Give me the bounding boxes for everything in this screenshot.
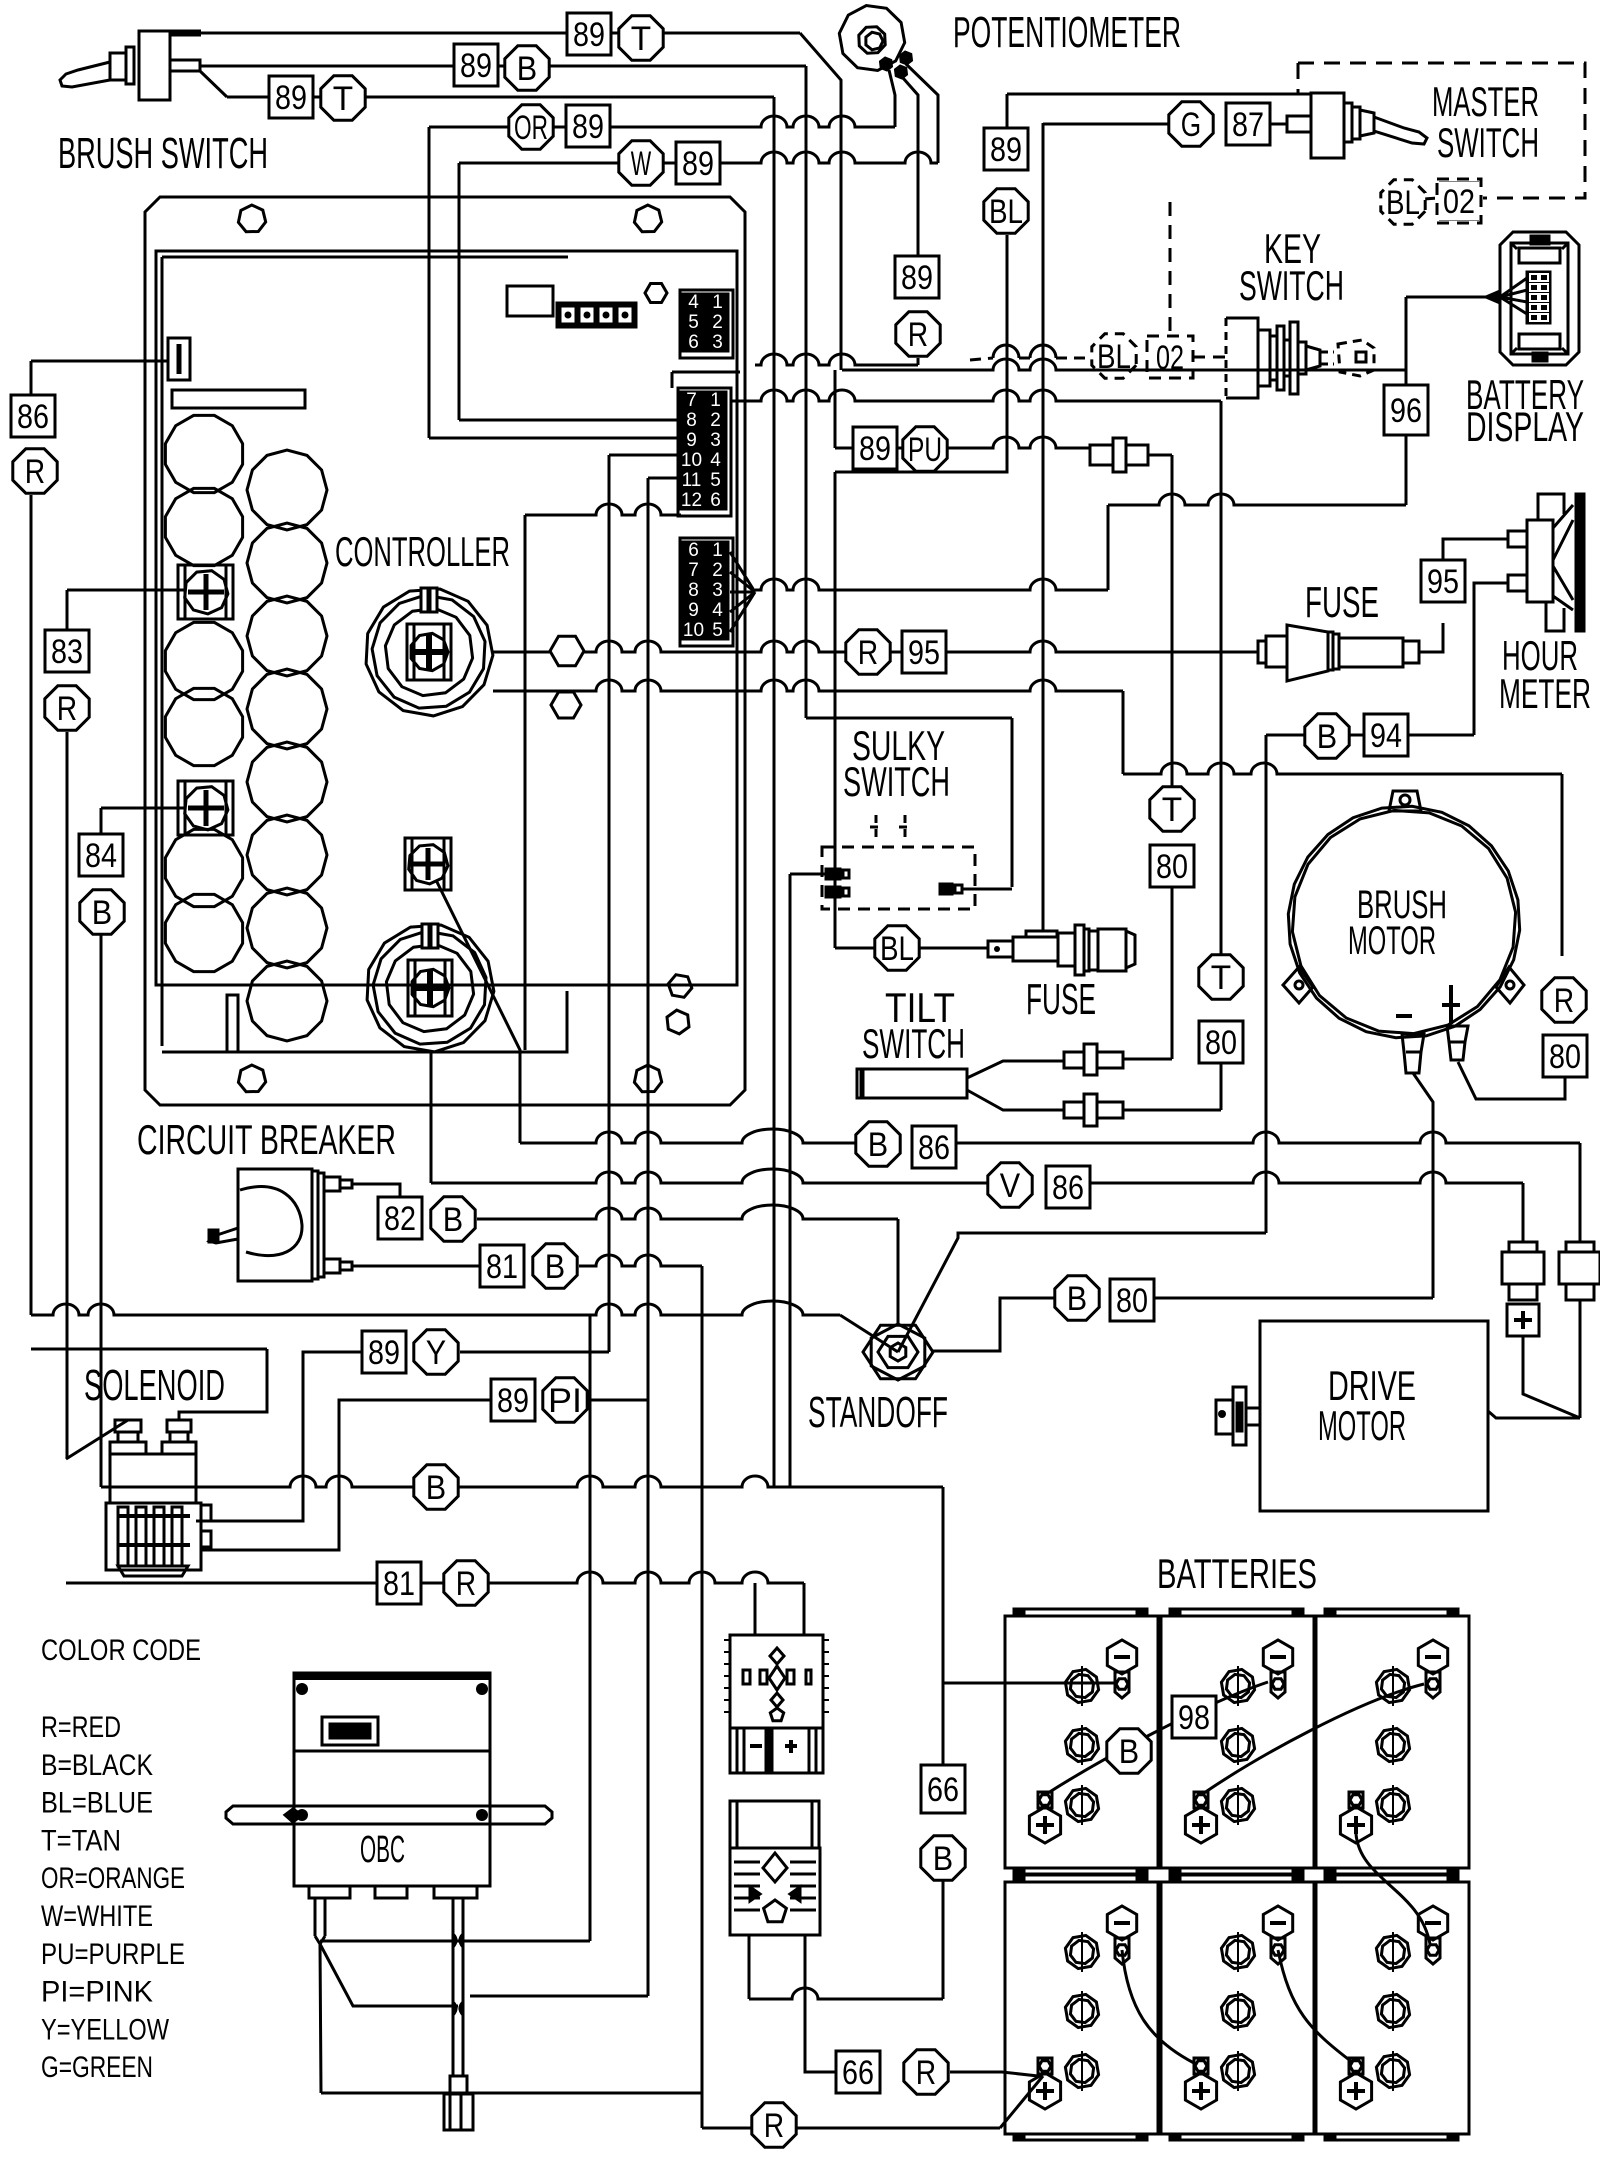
fuse (right) — [1258, 641, 1266, 663]
wire BL drop — [835, 235, 1007, 472]
wire label 87 — [1226, 103, 1270, 145]
wire orange to controller — [429, 116, 895, 127]
battery B2 plus terminal — [1194, 1792, 1208, 1808]
battery B5 — [1161, 1882, 1314, 2134]
battery jumper B3+ to B6- — [1356, 1834, 1430, 1944]
battery B1 — [1005, 1616, 1158, 1868]
controller terminal screw 2 — [178, 781, 233, 835]
svg-text:86: 86 — [17, 398, 49, 436]
svg-text:R: R — [1554, 982, 1574, 1020]
wire label 82 — [378, 1197, 422, 1239]
connector SB upper — [730, 1635, 823, 1728]
wire violet 86 row — [430, 1052, 433, 1183]
svg-text:2: 2 — [712, 312, 723, 333]
battery B6 minus terminal — [1418, 1906, 1447, 1940]
svg-text:9: 9 — [688, 600, 699, 621]
wire label 89 — [853, 427, 897, 469]
wire label 89 — [676, 142, 720, 184]
svg-text:PI=PINK: PI=PINK — [41, 1976, 153, 2009]
svg-text:95: 95 — [908, 634, 940, 672]
brush motor right tab — [1496, 967, 1524, 1003]
wire brush switch pole 3 (tan) — [200, 71, 227, 97]
wire color tag T — [1150, 787, 1194, 831]
svg-text:B: B — [1067, 1280, 1087, 1318]
wire color tag R — [13, 449, 57, 493]
wire color tag BL — [1381, 180, 1425, 224]
battery jumper B2+ to B3- — [1204, 1684, 1424, 1793]
svg-text:R: R — [57, 690, 77, 728]
key symbol — [1320, 352, 1334, 364]
OBC plug — [450, 2076, 467, 2094]
OBC left cable — [315, 1898, 325, 1936]
circuit breaker body — [238, 1169, 312, 1281]
wire color tag B — [1055, 1276, 1099, 1320]
wire 81 red row — [66, 1572, 804, 1583]
wire brush motor minus lead — [1413, 1073, 1433, 1298]
svg-text:STANDOFF: STANDOFF — [808, 1388, 948, 1437]
svg-text:OR: OR — [514, 109, 548, 147]
battery B4 — [1005, 1882, 1158, 2134]
tilt connector 2 — [1064, 1102, 1084, 1118]
svg-text:5: 5 — [712, 620, 723, 641]
controller breaker element — [168, 338, 190, 380]
battery display outline — [1500, 232, 1579, 365]
svg-text:PU=PURPLE: PU=PURPLE — [41, 1938, 185, 1971]
wire black 86 row — [436, 880, 520, 1143]
svg-text:89: 89 — [901, 259, 933, 297]
wire color tag B — [1107, 1729, 1151, 1773]
svg-text:POTENTIOMETER: POTENTIOMETER — [953, 8, 1181, 57]
wire sulky to right — [962, 888, 1012, 891]
solenoid posts — [115, 1420, 141, 1432]
wire 66 red row — [805, 1935, 836, 2072]
svg-text:12: 12 — [681, 490, 702, 511]
wire green to master switch — [1043, 123, 1170, 126]
wire OBC left cable to controller — [320, 1941, 590, 1944]
wire label 89 — [454, 44, 498, 86]
wire label 89 — [567, 13, 611, 55]
svg-text:81: 81 — [383, 1565, 415, 1603]
svg-text:2: 2 — [712, 560, 723, 581]
wire label 89 — [566, 105, 610, 147]
svg-text:SWITCH: SWITCH — [1437, 119, 1539, 166]
svg-text:CONTROLLER: CONTROLLER — [335, 528, 510, 575]
tilt switch body — [857, 1069, 967, 1098]
battery B4 plus terminal — [1038, 2058, 1052, 2074]
svg-text:89: 89 — [275, 79, 307, 117]
wire standoff from solenoid — [31, 1301, 840, 1315]
svg-text:3: 3 — [712, 332, 723, 353]
wire solenoid right post — [179, 1349, 267, 1420]
svg-text:B: B — [92, 894, 112, 932]
svg-text:95: 95 — [1427, 563, 1459, 601]
connector SB lower cap — [730, 1801, 819, 1848]
svg-text:10: 10 — [681, 450, 702, 471]
wire color tag B — [533, 1244, 577, 1288]
wire purple row — [835, 437, 1090, 448]
battery jumper B1+ to B2- — [1048, 1682, 1268, 1793]
wire label 95 — [902, 631, 946, 673]
wire pot lead 1 — [800, 33, 841, 370]
svg-text:BL: BL — [1386, 184, 1420, 222]
svg-text:3: 3 — [710, 430, 721, 451]
svg-text:1: 1 — [712, 292, 723, 313]
svg-text:10: 10 — [683, 620, 704, 641]
controller main knob M2 — [367, 925, 494, 1052]
wire color tag B — [431, 1197, 475, 1241]
wire 86R trunk down — [30, 495, 33, 1315]
svg-text:BL: BL — [989, 193, 1023, 231]
wire 84 black — [101, 807, 184, 810]
brush motor polarity — [1396, 1014, 1412, 1018]
svg-text:FUSE: FUSE — [1305, 578, 1379, 627]
wire black 94 — [1266, 734, 1474, 737]
wire fan from J3 to red trunk — [730, 552, 755, 592]
wire color tag PI — [543, 1378, 587, 1422]
svg-text:B: B — [1119, 1733, 1139, 1771]
circuit breaker lever — [209, 1228, 238, 1243]
svg-text:SWITCH: SWITCH — [1239, 262, 1344, 309]
svg-text:R: R — [858, 634, 878, 672]
svg-text:89: 89 — [859, 430, 891, 468]
svg-text:B: B — [1317, 718, 1337, 756]
svg-text:89: 89 — [497, 1382, 529, 1420]
OBC bottom stubs — [309, 1886, 350, 1898]
svg-text:02: 02 — [1443, 183, 1475, 221]
wire color tag BL — [875, 926, 919, 970]
svg-text:G=GREEN: G=GREEN — [41, 2051, 153, 2084]
wire color tag PU — [903, 427, 947, 471]
wire label 89 — [269, 76, 313, 118]
svg-text:7: 7 — [688, 560, 699, 581]
controller terminal screw B+ — [178, 565, 233, 619]
brush motor terminals — [1402, 1034, 1424, 1073]
svg-text:PU: PU — [908, 431, 942, 469]
wire color tag B — [921, 1836, 965, 1880]
wire J2 pin5 — [648, 477, 681, 480]
svg-text:1: 1 — [712, 540, 723, 561]
brush switch toggle — [139, 31, 170, 100]
wire red 95 run — [493, 641, 1258, 652]
wire vertical trunk x774 — [773, 97, 776, 1487]
svg-text:B: B — [933, 1840, 953, 1878]
tilt switch leads — [967, 1061, 1064, 1078]
svg-text:OR=ORANGE: OR=ORANGE — [41, 1862, 185, 1895]
battery B3 — [1316, 1616, 1469, 1868]
wire OR drop to controller pin — [428, 127, 431, 438]
svg-text:82: 82 — [384, 1200, 416, 1238]
wire label 80 — [1543, 1035, 1587, 1077]
battery jumper B4- to B5+ — [1122, 1950, 1194, 2063]
wire 81 black — [352, 1265, 480, 1268]
svg-text:89: 89 — [368, 1334, 400, 1372]
wire tan row to fuse circuit — [755, 579, 1108, 590]
svg-text:BL: BL — [880, 930, 914, 968]
wire standalone black row — [101, 1476, 943, 1487]
brush motor top tab — [1389, 791, 1421, 811]
standoff — [863, 1325, 933, 1379]
drive motor shaft — [1233, 1387, 1246, 1445]
inline connector (purple) — [1090, 445, 1113, 465]
wire color tag B — [856, 1122, 900, 1166]
svg-text:66: 66 — [927, 1771, 959, 1809]
wire label 80 — [1110, 1279, 1154, 1321]
master switch dashed enclosure — [1298, 63, 1585, 198]
svg-text:B: B — [545, 1248, 565, 1286]
controller mounting holes — [238, 205, 265, 232]
svg-text:80: 80 — [1116, 1282, 1148, 1320]
svg-text:W=WHITE: W=WHITE — [41, 1900, 153, 1933]
svg-text:6: 6 — [688, 332, 699, 353]
connector SB lower body — [730, 1848, 820, 1935]
wire color tag B — [414, 1465, 458, 1509]
svg-text:FUSE: FUSE — [1026, 975, 1096, 1024]
wire 96 to battery display — [1405, 297, 1408, 385]
svg-text:R: R — [916, 2054, 936, 2092]
battery B3 plus terminal — [1349, 1792, 1363, 1808]
wire label 98 — [1172, 1696, 1216, 1738]
dashed 02 box — [1147, 336, 1193, 378]
svg-text:T: T — [1162, 791, 1182, 829]
wire row y689 — [493, 680, 1123, 691]
svg-text:8: 8 — [686, 410, 697, 431]
controller hex bolt d — [667, 1010, 689, 1034]
wire label 89 — [984, 128, 1028, 170]
svg-text:METER: METER — [1499, 670, 1591, 717]
svg-text:8: 8 — [688, 580, 699, 601]
wire vertical trunk x806 (sulky feed) — [805, 66, 808, 718]
hex bolt on wire — [550, 636, 584, 665]
svg-text:81: 81 — [486, 1248, 518, 1286]
controller main knob M1 — [366, 589, 493, 716]
key switch dashed wire — [970, 358, 1085, 360]
wire 66 black chain — [942, 1487, 945, 1766]
svg-text:1: 1 — [710, 390, 721, 411]
wire row y401 — [730, 390, 1221, 401]
wire label 96 — [1384, 385, 1428, 435]
svg-text:V: V — [1000, 1167, 1021, 1205]
wire label 95 — [1421, 560, 1465, 602]
wire 82 black — [352, 1184, 400, 1197]
hour meter symbol — [1527, 520, 1553, 602]
battery B2 minus terminal — [1263, 1640, 1292, 1674]
wire brush switch pole 2 (black) — [200, 65, 806, 68]
controller pin connector J2 (7-12 | 1-6) — [678, 388, 731, 516]
wire color tag R — [45, 686, 89, 730]
svg-text:80: 80 — [1156, 848, 1188, 886]
wire color tag T — [1199, 955, 1243, 999]
svg-text:80: 80 — [1205, 1024, 1237, 1062]
battery B6 — [1316, 1882, 1469, 2134]
wire red pot return — [755, 354, 918, 365]
svg-text:66: 66 — [842, 2054, 874, 2092]
svg-text:96: 96 — [1390, 392, 1422, 430]
battery B1 minus terminal — [1107, 1640, 1136, 1674]
svg-text:89: 89 — [990, 131, 1022, 169]
svg-text:5: 5 — [688, 312, 699, 333]
svg-text:B=BLACK: B=BLACK — [41, 1749, 153, 1782]
wire label 66 — [921, 1765, 965, 1813]
wire color tag R — [904, 2050, 948, 2094]
svg-text:87: 87 — [1232, 106, 1264, 144]
wire 86 red to controller — [31, 360, 168, 363]
svg-text:83: 83 — [51, 633, 83, 671]
sulky switch pins — [826, 869, 840, 879]
svg-text:MOTOR: MOTOR — [1318, 1402, 1406, 1449]
svg-text:4: 4 — [712, 600, 723, 621]
svg-text:OBC: OBC — [360, 1829, 405, 1871]
svg-text:B: B — [868, 1126, 888, 1164]
wire tan row y774 to brush motor circuit — [1123, 763, 1562, 774]
OBC side bolts — [296, 1683, 308, 1695]
svg-text:89: 89 — [572, 108, 604, 146]
svg-text:BATTERIES: BATTERIES — [1157, 1550, 1317, 1597]
wire J2 pin6 — [525, 504, 681, 515]
svg-text:2: 2 — [710, 410, 721, 431]
wire pot red lead down to R tag — [903, 78, 918, 255]
wire to battery1 minus — [943, 1674, 1115, 1683]
svg-text:B: B — [517, 50, 537, 88]
hex bolt below wire — [551, 692, 581, 718]
svg-text:89: 89 — [682, 145, 714, 183]
svg-text:R: R — [25, 453, 45, 491]
wire label 81 — [480, 1245, 524, 1287]
controller aux screw — [405, 838, 451, 890]
svg-text:B: B — [443, 1201, 463, 1239]
wire color tag R — [846, 630, 890, 674]
svg-text:BRUSH SWITCH: BRUSH SWITCH — [58, 129, 268, 178]
wire fuse to hour meter — [1419, 623, 1443, 652]
brush motor left tab — [1283, 967, 1313, 1003]
wire label 66 — [836, 2051, 880, 2093]
sulky switch dashed box — [822, 847, 975, 909]
svg-text:MASTER: MASTER — [1432, 78, 1539, 125]
svg-text:3: 3 — [712, 580, 723, 601]
wire label 86 — [1046, 1166, 1090, 1208]
OBC center cable — [453, 1898, 463, 2076]
wire pot lead 2 (wiper) — [889, 70, 895, 127]
wire 83 red — [67, 589, 184, 592]
drive motor box — [1260, 1321, 1488, 1511]
connector SB upper contact band — [730, 1728, 823, 1773]
battery display harness arrow — [1406, 296, 1486, 299]
svg-text:89: 89 — [460, 47, 492, 85]
wire label 80 — [1199, 1021, 1243, 1063]
wire master switch to BL/02 — [1007, 93, 1311, 96]
svg-text:11: 11 — [682, 470, 702, 491]
svg-text:5: 5 — [710, 470, 721, 491]
battery jumper B5- to B6+ — [1278, 1950, 1352, 2062]
svg-text:SWITCH: SWITCH — [862, 1020, 965, 1067]
svg-text:R: R — [764, 2107, 784, 2145]
wire SB upper feeds — [754, 1583, 757, 1635]
svg-text:Y=YELLOW: Y=YELLOW — [41, 2013, 170, 2046]
inline connector V (left) — [1522, 1183, 1525, 1242]
wire black 80 motor — [1155, 1297, 1433, 1300]
OBC box — [294, 1673, 490, 1886]
wire label 83 — [45, 630, 89, 672]
controller outer box — [145, 197, 745, 1105]
svg-text:6: 6 — [688, 540, 699, 561]
svg-text:4: 4 — [710, 450, 721, 471]
controller hex bolt c — [668, 975, 692, 998]
wire label 80 — [1150, 845, 1194, 887]
svg-text:R: R — [908, 316, 928, 354]
wire color tag B — [1305, 714, 1349, 758]
svg-text:W: W — [631, 145, 651, 183]
svg-text:SWITCH: SWITCH — [843, 758, 950, 805]
wire OBC diag — [320, 1944, 458, 2006]
wire dashed from BL down to key switch — [1169, 202, 1172, 336]
wire sulky feed horizontal — [806, 717, 1012, 720]
wire color tag R — [444, 1561, 488, 1605]
wire label 89 — [895, 256, 939, 298]
controller pin connector J1 (4-6 | 1-3) — [680, 290, 733, 358]
battery B2 — [1161, 1616, 1314, 1868]
svg-text:G: G — [1181, 106, 1201, 144]
wire white to controller — [459, 152, 938, 163]
wire into drive motor — [1488, 1411, 1580, 1418]
circuit breaker top post — [324, 1177, 340, 1191]
master switch body — [1311, 93, 1344, 158]
svg-text:6: 6 — [710, 490, 721, 511]
master switch lever — [1374, 117, 1427, 144]
svg-text:R: R — [456, 1565, 476, 1603]
wire hour meter lower pin — [1474, 583, 1508, 735]
svg-text:T: T — [333, 80, 353, 118]
tilt connector 1 — [1064, 1052, 1084, 1068]
wire label 81 — [377, 1562, 421, 1604]
wire color tag V — [988, 1163, 1032, 1207]
svg-text:MOTOR: MOTOR — [1348, 919, 1436, 963]
svg-text:98: 98 — [1178, 1699, 1210, 1737]
svg-text:80: 80 — [1549, 1038, 1581, 1076]
circuit breaker bottom post — [324, 1259, 340, 1273]
solenoid base — [106, 1503, 201, 1570]
svg-text:BL=BLUE: BL=BLUE — [41, 1787, 153, 1820]
battery B1 plus terminal — [1038, 1792, 1052, 1808]
key switch body — [1226, 318, 1258, 398]
svg-text:4: 4 — [688, 292, 699, 313]
wire label 02 — [1437, 180, 1481, 222]
wire standoff to B94 trunk — [898, 1233, 1266, 1352]
wire color tag R — [1542, 978, 1586, 1022]
wire label 89 — [491, 1379, 535, 1421]
wire label 86 — [912, 1126, 956, 1168]
wire color tag T — [619, 16, 663, 60]
svg-text:SOLENOID: SOLENOID — [84, 1361, 225, 1410]
inline connector B (right) — [1579, 1143, 1582, 1242]
battery B4 minus terminal — [1107, 1906, 1136, 1940]
wire standoff from controller minus — [897, 1219, 900, 1326]
wire label 86 — [11, 395, 55, 437]
svg-text:T: T — [631, 20, 651, 58]
controller inner border — [156, 251, 737, 985]
wire color tag B — [505, 46, 549, 90]
wire label 84 — [79, 834, 123, 876]
battery B3 minus terminal — [1418, 1640, 1447, 1674]
wire color tag BL — [984, 189, 1028, 233]
battery display pin block — [1527, 272, 1550, 323]
wire color tag OR — [509, 105, 553, 149]
wire label 94 — [1364, 714, 1408, 756]
controller 4-pin header — [557, 303, 636, 327]
svg-text:94: 94 — [1370, 717, 1402, 755]
wire color tag R — [896, 312, 940, 356]
svg-text:R=RED: R=RED — [41, 1711, 121, 1744]
controller pin connector J3 (6-10 | 1-5) — [680, 538, 733, 646]
svg-text:89: 89 — [573, 16, 605, 54]
